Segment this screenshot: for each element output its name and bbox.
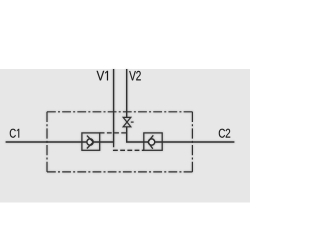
label V2: [129, 71, 141, 80]
label C1: [10, 129, 19, 138]
crisp line work: [6, 69, 235, 172]
port labels: [10, 71, 230, 138]
label C2: [219, 129, 230, 138]
gray schematic panel: [0, 69, 250, 203]
label V1: [97, 71, 108, 80]
soft halo underlay: [6, 69, 235, 172]
